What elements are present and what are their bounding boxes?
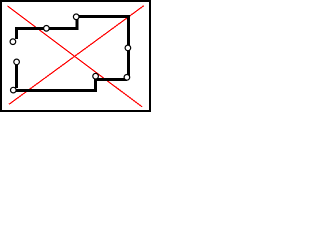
node F <box>93 73 99 79</box>
red diagonal line 2 (bottom-left to top-right) <box>9 6 144 105</box>
background <box>0 0 151 112</box>
wire F-G (down, left) <box>13 77 95 91</box>
node H <box>14 59 20 65</box>
node B <box>44 26 50 32</box>
red diagonal line 1 (top-left to bottom-right) <box>8 6 143 107</box>
node G <box>11 87 17 93</box>
wire E-F <box>96 78 127 81</box>
wire G-H (up) <box>15 65 18 88</box>
node A <box>10 39 16 45</box>
node D <box>125 45 131 51</box>
border frame <box>1 1 150 111</box>
node C <box>73 14 79 20</box>
node E <box>124 75 130 81</box>
wire A-B-C (up, right, up) <box>17 17 77 39</box>
wire C-D-E (right, down) <box>76 17 128 78</box>
